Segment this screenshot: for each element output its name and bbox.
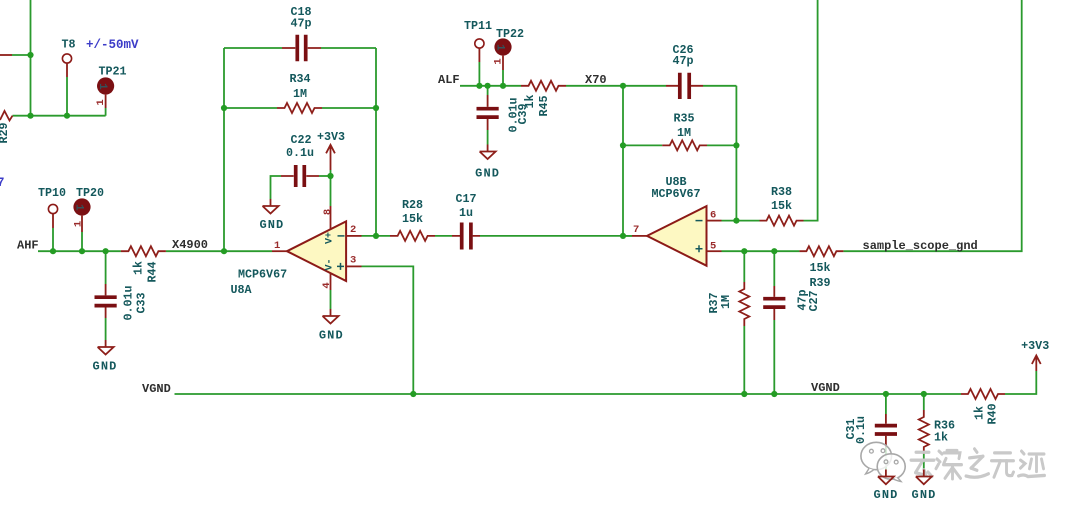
svg-text:X70: X70 [585,73,607,87]
svg-text:TP22: TP22 [496,27,524,41]
svg-text:7: 7 [633,224,639,236]
svg-text:ALF: ALF [438,73,460,87]
svg-text:R40: R40 [986,403,1000,424]
svg-text:4: 4 [321,282,333,288]
svg-text:TP10: TP10 [38,186,66,200]
wire C22 right to node [319,175,331,177]
resistor off-screen lead top-left [0,54,12,56]
wire AHF row [38,250,272,252]
wire U8A pin4 to ground [330,290,332,309]
svg-text:0.1u: 0.1u [286,146,314,160]
wire right vertical of U8A feedback [375,48,377,236]
wire U8B left vertical [622,86,624,236]
svg-text:GND: GND [874,488,899,502]
wire VGND row [175,393,962,395]
U8B minus mark [696,220,703,222]
wire C27 bottom [773,320,775,394]
svg-text:1: 1 [96,83,108,90]
svg-text:R38: R38 [771,185,792,199]
wire R28 to C17 [435,235,452,237]
svg-text:1M: 1M [293,87,307,101]
svg-text:1k: 1k [934,431,948,445]
svg-text:7: 7 [0,176,5,190]
resistor R28 [390,231,435,241]
wire C17 to U8B pin7 [480,235,632,237]
wire R38 up off-screen [804,0,818,221]
capacitor C22 [281,175,319,177]
svg-text:U8A: U8A [231,283,253,297]
wire C27 top [773,251,775,286]
wire U8B pin6 to R38 [722,220,760,222]
svg-text:R28: R28 [402,198,423,212]
svg-text:V+: V+ [325,232,336,244]
wire C39 bottom to ground [487,130,489,145]
svg-text:1k: 1k [523,94,537,108]
svg-text:GND: GND [475,167,500,181]
svg-text:6: 6 [710,210,716,222]
svg-text:15k: 15k [809,261,830,275]
svg-text:AHF: AHF [17,238,39,252]
wire R37 top [743,251,745,282]
svg-text:1k: 1k [132,261,146,275]
svg-text:GND: GND [259,218,284,232]
svg-text:8: 8 [322,209,334,215]
resistor R39 [799,246,843,256]
svg-text:C22: C22 [290,133,311,147]
capacitor C39 [487,95,489,130]
svg-text:1: 1 [73,204,85,211]
U8A minus mark [338,235,345,237]
resistor R37 vertical [739,282,749,326]
ground C39 [480,145,496,160]
wire U8B pin7 stub [623,235,632,237]
wire U8A pin8 vertical [330,176,332,206]
svg-text:C27: C27 [807,290,821,311]
op-amp U8B [647,206,707,266]
watermark char yun [911,452,934,476]
resistor R34 [277,103,322,113]
svg-text:X4900: X4900 [172,238,208,252]
testpoint TP20 [73,198,90,215]
resistor R29 partial zigzag left edge [0,111,13,121]
wire R36 bottom to ground [923,454,925,470]
power +3V3 right [1032,356,1041,372]
svg-text:0.01u: 0.01u [122,285,136,320]
WATERMARK [861,442,1045,481]
U8A pin 1 stub [272,250,287,252]
capacitor C33 [105,284,107,318]
svg-text:R39: R39 [809,276,830,290]
logo big bubble [861,442,892,474]
capacitor C26 [666,85,703,87]
svg-text:R45: R45 [537,95,551,116]
svg-text:R35: R35 [673,112,694,126]
svg-text:GND: GND [912,488,937,502]
wire horizontal lower-left (node to TP21) [13,108,106,116]
wire C31 bottom to ground [885,447,887,470]
svg-text:1: 1 [73,221,85,227]
svg-text:GND: GND [93,360,118,374]
U8A pin 3 stub [346,265,361,267]
svg-text:T8: T8 [62,38,76,52]
U8B pin 7 stub [632,235,647,237]
wire vertical top-left [30,0,32,116]
wire TP11 vertical [478,62,480,86]
wire R34 row [224,107,376,109]
svg-text:3: 3 [350,255,356,267]
U8A plus mark [337,263,344,270]
svg-text:V-: V- [325,258,336,270]
ground R36 [912,470,937,503]
svg-text:47p: 47p [672,54,693,68]
U8A pin 8 stub [330,206,332,229]
testpoint TP22 [494,38,511,55]
wire T8 vertical [66,77,68,116]
wire U8B pin5 row [722,250,800,252]
svg-text:+3V3: +3V3 [317,130,345,144]
wire horizontal upper-left [12,54,31,56]
ground C22 [263,199,279,214]
ground U8A pin4 [323,309,339,324]
wire C31 top [885,394,887,414]
capacitor C17 [452,235,480,237]
ground C31 [874,470,899,503]
op-amp U8A [287,221,346,281]
wire R36 top [923,394,925,410]
wire TP20 vertical [81,232,83,251]
resistor R45 [521,81,566,91]
svg-text:C17: C17 [455,192,476,206]
svg-text:TP20: TP20 [76,186,104,200]
capacitor C27 [773,286,775,320]
resistor R38 [760,216,804,226]
U8B plus mark [696,245,703,252]
svg-text:1M: 1M [677,126,691,140]
svg-text:15k: 15k [402,212,423,226]
svg-text:R44: R44 [146,261,160,282]
wire sample_scope_gnd to top right [843,0,1021,251]
watermark char shen [936,451,962,479]
svg-text:1k: 1k [973,406,987,420]
svg-text:C33: C33 [135,292,149,313]
resistor R36 vertical [919,410,929,454]
wire U8A pin3 to VGND [362,266,414,394]
wire node X4900 vertical [223,48,225,251]
watermark char zhi [966,449,989,477]
resistor R44 [121,246,166,256]
wire C33 top [105,251,107,284]
svg-text:5: 5 [710,241,716,253]
svg-text:1: 1 [95,99,107,105]
capacitor C18 [282,47,321,49]
wire R35 row [623,144,736,146]
ground C33 [98,340,114,355]
testpoint TP10 [48,204,57,213]
wire C22 left and down to ground [271,176,282,199]
svg-text:+/-50mV: +/-50mV [86,38,139,52]
svg-text:+3V3: +3V3 [1021,339,1049,353]
svg-text:47p: 47p [290,16,311,30]
svg-text:1M: 1M [719,295,733,309]
testpoint T8 [62,54,71,63]
wire +3V3 U8A stub [330,170,332,176]
resistor R40 [961,389,1005,399]
svg-text:1u: 1u [459,206,473,220]
svg-text:TP21: TP21 [99,65,127,79]
svg-text:2: 2 [350,224,356,236]
svg-text:1: 1 [494,44,506,51]
wire TP22 vertical [502,70,504,86]
wire R37 bottom [743,326,745,394]
svg-text:R34: R34 [289,72,310,86]
testpoint TP21 [97,77,114,94]
wire C33 bottom to ground [105,318,107,340]
wire C26 right vertical [735,86,737,221]
U8B pin 6 stub [707,220,722,222]
svg-text:R29: R29 [0,122,11,143]
watermark char ji [1019,451,1045,476]
capacitor C31 [885,414,887,447]
svg-text:MCP6V67: MCP6V67 [238,268,287,282]
wire TP10 vertical [52,228,54,251]
svg-text:0.1u: 0.1u [854,416,868,444]
svg-text:sample_scope_gnd: sample_scope_gnd [863,239,978,253]
svg-text:TP11: TP11 [464,19,492,33]
svg-text:VGND: VGND [811,381,840,395]
testpoint TP11 [475,39,484,48]
U8A pin 4 stub [330,273,332,290]
svg-text:MCP6V67: MCP6V67 [651,187,700,201]
svg-text:GND: GND [319,329,344,343]
wire C18 row [224,47,376,49]
U8B pin 5 stub [707,250,722,252]
wire U8A pin2 to R28 [362,235,391,237]
power +3V3 U8A [326,145,335,170]
watermark char wu [992,453,1014,477]
svg-text:1: 1 [274,240,280,252]
resistor R35 [662,140,707,150]
svg-text:VGND: VGND [142,382,171,396]
U8A pin 2 stub [346,235,361,237]
wire ALF row [460,85,736,87]
logo small bubble [877,454,905,482]
svg-text:1: 1 [493,58,505,64]
wire C39 top [487,86,489,95]
wire VGND after R40 [1005,371,1036,394]
svg-text:15k: 15k [771,199,792,213]
